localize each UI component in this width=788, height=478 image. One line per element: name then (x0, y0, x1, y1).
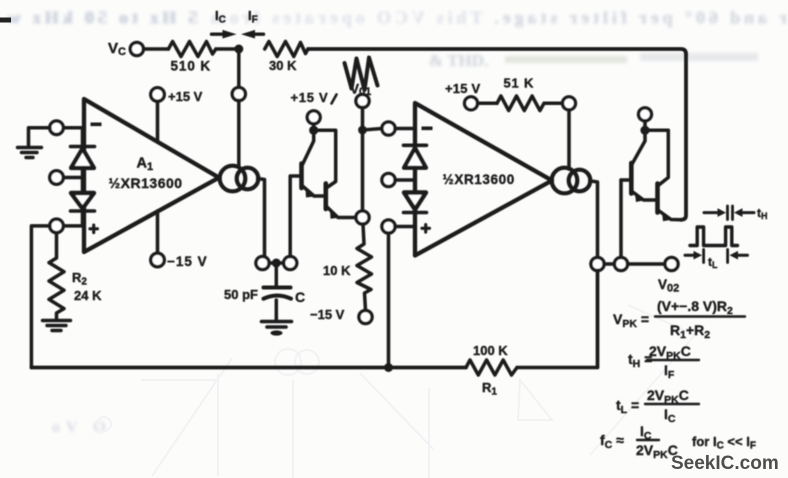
node VC label (108, 40, 126, 58)
terminal V02 node mid (614, 257, 627, 270)
wire (312, 124, 316, 131)
svg-text:SeekIC.com: SeekIC.com (671, 453, 779, 474)
wire (604, 262, 614, 266)
wire (395, 127, 415, 131)
wire A2 + input down to rail (387, 233, 391, 367)
junction cap node (272, 259, 281, 268)
wire (544, 102, 562, 106)
transistor Q4 (right darlington) (655, 184, 660, 213)
resistor R1 100K (466, 360, 517, 375)
svg-text:5 Hz to 50 kHz w: 5 Hz to 50 kHz w (3, 8, 197, 28)
wire (63, 176, 82, 180)
wire (144, 47, 169, 51)
diode D4 (A2, cathode down) (404, 193, 426, 210)
svg-text:30 K: 30 K (269, 58, 297, 73)
wire (269, 261, 284, 265)
waveform symbol V01 (345, 58, 378, 91)
terminal cap node right (284, 256, 297, 269)
current label IC (215, 8, 226, 26)
terminal +15V right darlington (639, 108, 652, 121)
formula VPK (613, 298, 733, 341)
wire rail right (517, 271, 598, 368)
wire mirror output to V02 line (590, 181, 598, 258)
terminal VC (130, 42, 143, 55)
rail bottom wire (31, 366, 466, 370)
wire (413, 211, 417, 227)
svg-text:½XR13600: ½XR13600 (443, 172, 515, 187)
op-amp A1 triangle (84, 99, 219, 252)
terminal +15V middle (307, 111, 320, 124)
diode D3 (A2, cathode up) (404, 144, 427, 148)
wire mirror output down (258, 179, 265, 257)
waveform pulses (690, 227, 738, 246)
minus mark A1 (91, 123, 102, 127)
terminal A2 non-inverting input (382, 220, 395, 233)
wire top rail to right corner (308, 49, 686, 54)
current mirror A2 output (552, 168, 578, 194)
wire right vertical drop (681, 54, 687, 220)
svg-text:+15 V: +15 V (291, 90, 329, 105)
svg-text:51 K: 51 K (504, 76, 535, 91)
wire bias down to mirror (567, 110, 571, 169)
wire (29, 128, 85, 146)
terminal A1 diode midpoint (50, 171, 64, 185)
terminal A1 inverting input (50, 121, 64, 135)
wire (216, 47, 239, 51)
terminal cap node left (256, 256, 269, 269)
capacitor C 50pF (264, 286, 291, 290)
wire V02 up to darlington base (619, 180, 623, 257)
current mirror A1 output (220, 166, 246, 192)
arrow IC (212, 33, 226, 36)
arrow IF (253, 33, 264, 36)
svg-text:+15 V: +15 V (445, 81, 480, 96)
label 1/2XR13600 (109, 175, 183, 191)
terminal V01 (356, 94, 369, 107)
resistor R2 24K (49, 233, 64, 319)
plus mark A2 (422, 225, 430, 233)
junction rail / A2 input (384, 363, 393, 372)
svg-text:100 K: 100 K (473, 343, 508, 358)
resistor 10K (357, 224, 372, 310)
label 1/2XR13600 A2 (443, 172, 515, 187)
ground C (262, 322, 292, 328)
terminal A2 inverting input (382, 122, 395, 135)
svg-text:50 pF: 50 pF (224, 287, 258, 302)
terminal -15V A1 (151, 253, 165, 267)
timing marker tH (704, 211, 720, 214)
formula tH (628, 343, 691, 381)
svg-text:10 K: 10 K (323, 263, 351, 278)
wire diode chain A2 top (413, 129, 417, 146)
timing marker tL (685, 254, 696, 257)
terminal +15V A1 (151, 88, 165, 102)
wire (395, 178, 415, 182)
svg-text:r and 60° per filter stage.: r and 60° per filter stage. (491, 8, 787, 28)
wire (156, 211, 160, 253)
terminal A1 non-inverting input (50, 219, 64, 233)
terminal -15V 10K (359, 310, 372, 323)
wire (643, 121, 647, 131)
label +15 V (168, 89, 203, 104)
svg-text:+15 V: +15 V (168, 89, 203, 104)
plus mark A1 (90, 225, 98, 233)
svg-text:½XR13600: ½XR13600 (109, 175, 183, 191)
transistor Q1 (middle darlington) (303, 130, 314, 164)
svg-text:oV O: oV O (52, 419, 112, 436)
wire to capacitor (275, 263, 279, 286)
wire (156, 101, 160, 141)
terminal V02 (665, 257, 678, 270)
terminal V02 node left (591, 257, 604, 270)
terminal +15V bias A2 (465, 97, 478, 110)
junction (640, 126, 649, 135)
junction (358, 126, 367, 135)
wire (628, 262, 665, 266)
wire from node down (237, 49, 241, 88)
resistor 30K (265, 42, 308, 57)
resistor 51K (497, 96, 544, 111)
ground (18, 148, 42, 158)
wire collector branch right (645, 130, 668, 185)
label A1 (137, 156, 154, 174)
transistor Q3 (right darlington) (632, 130, 645, 164)
svg-text:C: C (295, 289, 305, 305)
formula tL (616, 387, 689, 425)
wire collector branch (314, 130, 336, 187)
wire V02 down to rail (596, 271, 600, 368)
diode D2 (A1 linearizing, cathode down) (71, 193, 94, 209)
terminal A2 diode midpoint (382, 173, 395, 186)
svg-text:−15 V: −15 V (167, 254, 208, 269)
wire to A2 inverting input (363, 129, 383, 131)
wire (478, 102, 498, 106)
label -15 V (167, 254, 208, 269)
terminal bias node (563, 97, 576, 110)
terminal on bias line (232, 87, 245, 100)
transistor Q2 (middle darlington) (323, 184, 328, 210)
svg-text:510 K: 510 K (171, 59, 212, 74)
wire (81, 211, 85, 226)
node label V02 (658, 277, 679, 295)
wire diode chain top (81, 128, 85, 146)
wire V01 vertical (361, 108, 365, 211)
wire diode junction (81, 168, 85, 193)
wire (237, 101, 241, 167)
svg-text:for IC << IF: for IC << IF (692, 434, 756, 452)
ground R2 (43, 321, 71, 331)
svg-text:& THD.: & THD. (429, 51, 488, 70)
current label IF (248, 8, 258, 26)
scan mark top-left (0, 18, 11, 23)
svg-text:−15 V: −15 V (310, 307, 345, 322)
terminal junction V01/10K (356, 211, 369, 224)
diode D1 (A1 linearizing, cathode up) (71, 145, 95, 149)
op-amp A2 triangle (415, 103, 552, 256)
svg-text:24 K: 24 K (74, 288, 102, 303)
formula fC (600, 423, 756, 461)
resistor 510K (168, 42, 216, 57)
wire (31, 226, 84, 368)
wire (395, 225, 415, 229)
wire diode junction A2 (413, 168, 417, 194)
junction (309, 126, 318, 135)
minus mark A2 (422, 127, 433, 131)
node junction (234, 45, 243, 54)
node label V01 (350, 82, 371, 99)
